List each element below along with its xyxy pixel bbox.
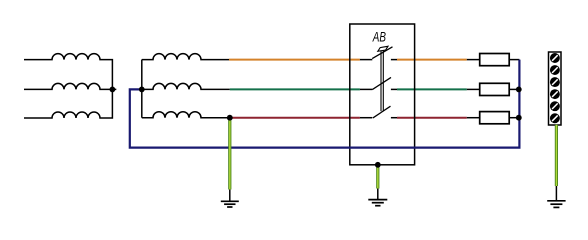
svg-text:AB: AB <box>372 30 386 45</box>
